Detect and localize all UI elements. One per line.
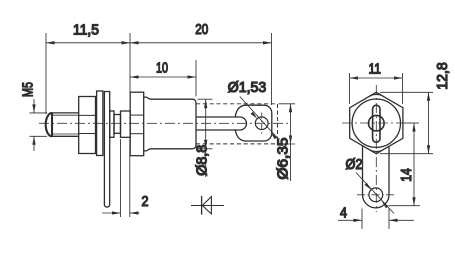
arrow 11 right	[394, 76, 403, 79]
hex facet line upper	[79, 114, 96, 116]
svg-text:2: 2	[142, 194, 149, 210]
body circle in end view	[352, 99, 400, 147]
arrow 20 left	[130, 41, 139, 44]
end view vertical centerline	[375, 85, 377, 212]
hex facet line lower	[79, 133, 96, 135]
4 extension line right	[388, 209, 390, 230]
12,8 extension line top	[380, 91, 433, 93]
arrow 4 right-pointing	[354, 219, 363, 222]
hidden sleeve dashed right	[277, 104, 279, 144]
Ø6,35 arrow up	[289, 104, 292, 113]
arrow 11 left	[350, 76, 359, 79]
arrow 10 left	[130, 75, 139, 78]
lead wire bottom line	[196, 117, 247, 130]
arrow 14 down	[412, 197, 415, 206]
hidden sleeve dashed top	[196, 103, 278, 105]
14 extension line bottom	[389, 205, 421, 207]
dimension line 20	[130, 42, 272, 44]
M5 extension line top	[30, 112, 48, 114]
4 extension line left	[361, 209, 363, 230]
14 extension line top	[404, 122, 419, 124]
terminal lug	[235, 105, 272, 141]
11 extension line right	[402, 73, 404, 104]
svg-text:10: 10	[156, 61, 168, 77]
diode symbol horizontal line	[191, 205, 224, 207]
svg-text:11: 11	[368, 62, 381, 78]
svg-text:20: 20	[195, 22, 208, 38]
extension line shared at ring left	[129, 33, 131, 92]
extension line 10 right at body end	[195, 60, 197, 97]
svg-text:Ø2: Ø2	[346, 157, 363, 173]
M5 extension line bottom	[30, 135, 48, 137]
ring facet line lower	[130, 133, 144, 135]
2mm extension line right	[129, 139, 131, 217]
arrow 14 up	[412, 123, 415, 132]
hidden sleeve dashed bottom	[196, 143, 278, 145]
slot in end view	[373, 105, 380, 142]
arrow 10 right	[188, 75, 197, 78]
svg-text:Ø1,53: Ø1,53	[228, 80, 267, 96]
small circle in end view	[369, 115, 385, 131]
diode symbol triangle	[202, 197, 211, 214]
M5 dimension line lower	[33, 136, 35, 151]
arrow 11,5 left	[46, 41, 55, 44]
arrow 12,8 down	[427, 145, 430, 154]
M5 arrow down	[32, 104, 35, 113]
diode symbol cathode bar	[201, 196, 203, 215]
end view tab right edge	[388, 146, 390, 194]
main body Ø8.8	[144, 97, 196, 151]
2mm dimension tail left	[102, 212, 121, 214]
end view horizontal centerline	[342, 122, 411, 124]
hex nut body	[79, 97, 96, 154]
M5 dimension line upper	[33, 99, 35, 113]
svg-text:11,5: 11,5	[73, 23, 99, 39]
svg-text:Ø8,8: Ø8,8	[194, 145, 210, 176]
svg-text:12,8: 12,8	[435, 62, 451, 90]
end view tab left edge	[362, 146, 364, 195]
2mm extension line left	[120, 139, 122, 217]
lug hole vertical centerline	[261, 113, 263, 135]
ring facet line upper	[130, 114, 144, 116]
spacer disc C (2mm)	[121, 111, 131, 137]
Ø2 leader arrow lower	[382, 201, 389, 208]
Ø6,35 extension line top	[279, 103, 296, 105]
stud tip chamfer line	[51, 113, 53, 137]
svg-text:4: 4	[340, 205, 347, 221]
2mm arrow left-pointing	[130, 211, 139, 214]
Ø6,35 extension line bottom	[279, 143, 296, 145]
dimension line 14	[413, 123, 415, 206]
hexagon flange	[350, 92, 403, 153]
end view tab bottom arc	[363, 195, 390, 208]
Ø2 leader line	[356, 173, 394, 214]
end view tab hole Ø2	[369, 188, 383, 202]
solder tab side view	[104, 92, 109, 208]
stud M5 thread tip arc	[46, 113, 52, 136]
arrow 20 right	[263, 41, 272, 44]
stud outer bottom line	[51, 135, 79, 137]
body ring	[130, 92, 144, 156]
Ø8,8 arrow up	[204, 100, 207, 109]
arrow 11,5 right	[122, 41, 131, 44]
dimension line 11	[350, 77, 403, 79]
lead wire top line	[196, 116, 240, 118]
2mm arrow right-pointing	[112, 211, 121, 214]
arrow 12,8 up	[427, 92, 430, 101]
12,8 extension line bottom	[380, 153, 433, 155]
Ø1,53 leader line	[240, 97, 279, 140]
washer flange	[97, 91, 103, 156]
hex chamfer arc top	[369, 94, 383, 96]
Ø6,35 dimension line	[290, 104, 292, 181]
centerline side view	[39, 122, 288, 124]
arrow 4 left-pointing	[389, 219, 398, 222]
2mm dimension tail right	[130, 212, 140, 214]
extension line 20 right at lug end	[271, 33, 273, 105]
4 dimension tail left	[338, 219, 362, 221]
lug hole Ø1.53	[255, 117, 268, 130]
svg-text:14: 14	[399, 168, 415, 182]
spacer disc A	[110, 111, 114, 137]
Ø8,8 arrow down	[204, 140, 207, 149]
Ø8,8 dimension line	[205, 99, 207, 177]
tab hole horizontal centerline	[357, 194, 395, 196]
M5 arrow up	[32, 136, 35, 145]
11 extension line left	[349, 73, 351, 104]
extension line stud tip (11,5 left)	[45, 33, 47, 114]
Ø1,53 leader arrow upper	[251, 112, 258, 119]
Ø2 leader arrow upper	[365, 183, 372, 190]
dimension line 11,5	[46, 42, 130, 44]
dimension line 12,8	[428, 92, 430, 153]
Ø6,35 arrow down	[289, 136, 292, 145]
svg-text:Ø6,35: Ø6,35	[275, 138, 291, 180]
hex chamfer arc bottom	[369, 150, 383, 152]
Ø1,53 leader arrow lower	[271, 132, 278, 139]
stud outer top line	[51, 112, 79, 114]
4 dimension tail right	[389, 219, 414, 221]
svg-text:M5: M5	[20, 82, 36, 97]
stud thread inner top line	[53, 114, 79, 116]
neck groove B	[114, 115, 121, 134]
stud thread inner bottom line	[53, 133, 79, 135]
dimension line 10	[130, 76, 196, 78]
